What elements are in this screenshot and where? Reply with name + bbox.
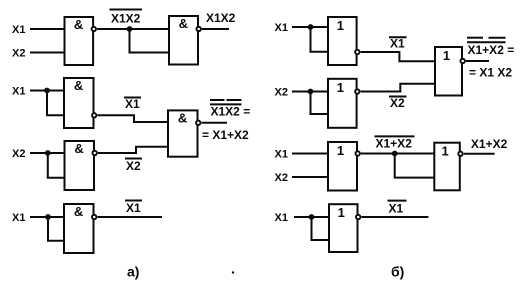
wire gate B2 output to gate B3 bottom input (361, 84, 435, 92)
node X1 input label (row 4 left) (12, 212, 25, 224)
overline short bar over X1 (210, 99, 225, 101)
node junction on X1 input (44, 88, 50, 94)
wire X1 to gate A1 (30, 28, 65, 30)
svg-text:&: & (74, 141, 83, 156)
svg-text:X2: X2 (390, 96, 405, 110)
wire gate A5 output (202, 122, 228, 124)
svg-text:&: & (179, 16, 188, 31)
svg-text:X2: X2 (275, 87, 288, 99)
svg-text:X1: X1 (275, 212, 288, 224)
overline bar (388, 200, 407, 202)
wire branch down to gate B1 second input (311, 27, 329, 52)
wire X1 to gate A6 (30, 216, 64, 218)
value label = X1 X2 (469, 66, 512, 80)
inversion bubble of gate B3 (461, 59, 465, 63)
wire gate B5 output (464, 153, 495, 155)
wire branch down to gate B6 second input (312, 217, 330, 240)
node X2 input label (right row 3) (275, 172, 288, 184)
svg-text:X1: X1 (12, 86, 25, 98)
wire X2 to gate B2 (292, 91, 328, 93)
node X2 input label (right row 2) (275, 87, 288, 99)
NOR gate B2 (328, 79, 357, 128)
svg-text:X1+X2 =: X1+X2 = (468, 43, 515, 57)
svg-text:X1: X1 (275, 149, 288, 161)
NAND gate A4 (65, 141, 95, 190)
value label overline X1 (right row 4) (389, 202, 404, 216)
svg-text:X1: X1 (126, 201, 141, 215)
svg-text:X1: X1 (125, 97, 140, 111)
overline short bar over X2 (489, 37, 506, 39)
svg-text:1: 1 (338, 205, 345, 220)
node X1 input label (right row 3) (275, 149, 288, 161)
svg-text:1: 1 (337, 80, 344, 95)
inversion bubble of gate B5 (458, 152, 462, 156)
node junction on B4 output (392, 151, 398, 157)
node junction on X1 input (45, 214, 51, 220)
value label overline X2 (right row 2) (390, 96, 405, 110)
wire X2 to gate A4 (30, 152, 65, 154)
inversion bubble of gate A3 (92, 113, 96, 117)
svg-text:&: & (178, 111, 187, 126)
svg-text:б): б) (391, 264, 404, 280)
wire branch down to gate A4 second input (48, 153, 65, 178)
overline short bar over X1 (467, 37, 483, 39)
value label double-overline X1+X2 = (468, 43, 515, 57)
overline bar (124, 97, 141, 99)
wire branch down to gate B2 second input (311, 92, 329, 115)
value label overline X1+X2 (376, 137, 413, 151)
overline long bar (210, 103, 242, 105)
wire X1 to gate A3 (30, 90, 64, 92)
svg-text:= X1 X2: = X1 X2 (469, 66, 512, 80)
inversion bubble of gate A2 (197, 27, 201, 31)
overline bar (110, 9, 143, 11)
svg-text:X2: X2 (12, 48, 25, 60)
svg-text:X1+X2: X1+X2 (376, 137, 413, 151)
wire gate B1 output to gate B3 top input (361, 52, 435, 61)
value label overline X2 (row 3) (126, 159, 141, 173)
wire X1 to gate B1 (292, 26, 328, 28)
svg-text:&: & (74, 78, 83, 93)
svg-text:&: & (74, 204, 83, 219)
wire X2 to gate B4 (292, 176, 328, 178)
inversion bubble of gate B2 (355, 89, 359, 93)
wire X1 to gate B6 (294, 216, 329, 218)
node junction on A1 output (127, 26, 133, 32)
wire gate A4 output to gate A5 bottom input (98, 147, 168, 153)
overline bar (125, 200, 142, 202)
label b) (391, 264, 404, 280)
svg-text:1: 1 (337, 18, 344, 33)
NAND gate A3 (64, 78, 94, 128)
node X1 input label (right row 1) (275, 22, 288, 34)
wire branch down from junction to gate A2 bottom input (130, 29, 170, 53)
inversion bubble of gate B6 (356, 215, 360, 219)
svg-text:1: 1 (443, 48, 450, 63)
NOR gate B4 (328, 142, 357, 191)
decorative dot (232, 271, 234, 273)
svg-text:X1: X1 (275, 22, 288, 34)
svg-text:X2: X2 (12, 148, 25, 160)
inversion bubble of gate B1 (355, 50, 359, 54)
svg-text:1: 1 (441, 144, 448, 159)
overline bar (389, 96, 407, 98)
wire branch down to gate A6 second input (48, 217, 64, 241)
label a) (127, 264, 139, 280)
value label overline X1 (row 4) (126, 201, 141, 215)
svg-text:а): а) (127, 264, 139, 280)
wire gate B6 output (362, 216, 429, 218)
svg-text:X1X2: X1X2 (111, 12, 141, 26)
wire gate B3 output (466, 60, 489, 62)
overline short bar over X2 (227, 99, 242, 101)
wire branch down to gate B5 second input (395, 154, 435, 178)
svg-text:X1: X1 (389, 202, 404, 216)
node X2 input label (row 1 left) (12, 48, 25, 60)
overline long bar (467, 41, 506, 43)
node X1 input label (right row 4) (275, 212, 288, 224)
wire branch down to gate A3 second input (47, 91, 64, 116)
svg-text:= X1+X2: = X1+X2 (202, 128, 249, 142)
node X2 input label (row 3 left) (12, 148, 25, 160)
inversion bubble of gate A6 (92, 215, 96, 219)
inversion bubble of gate B4 (356, 151, 360, 155)
value label overline X1 (right row 1) (390, 37, 405, 51)
node X1 input label (row 2 left) (12, 86, 25, 98)
NAND gate A1 (65, 17, 94, 65)
node junction on X1 input (308, 24, 314, 30)
wire gate A6 output (98, 216, 163, 218)
NOR gate B6 (329, 204, 358, 252)
wire X1 to gate B4 (292, 153, 328, 155)
value label X1+X2 output (471, 137, 508, 151)
wire gate B4 output to gate B5 top input (361, 153, 434, 155)
overline bar (375, 135, 415, 137)
overline bar (389, 36, 407, 38)
svg-text:X2: X2 (275, 172, 288, 184)
svg-text:&: & (74, 17, 83, 32)
value label = X1+X2 (202, 128, 249, 142)
svg-text:X1: X1 (12, 24, 25, 36)
svg-text:X1: X1 (390, 37, 405, 51)
inversion bubble of gate A5 (196, 121, 200, 125)
value label overline X1X2 (111, 12, 141, 26)
svg-text:X1X2 =: X1X2 = (211, 105, 251, 119)
value label double-overline X1X2 = (211, 105, 251, 119)
NOR gate B1 (328, 17, 357, 65)
NAND gate A2 (169, 16, 198, 65)
wire gate A2 output (202, 28, 229, 30)
svg-text:X1X2: X1X2 (206, 11, 236, 25)
wire gate A3 output to gate A5 top input (98, 115, 169, 122)
value label overline X1 (row 2) (125, 97, 140, 111)
svg-text:X1: X1 (12, 212, 25, 224)
NAND gate A5 (168, 110, 198, 156)
inversion bubble of gate A4 (93, 151, 97, 155)
inversion bubble of gate A1 (92, 27, 96, 31)
node junction on X1 input (309, 214, 315, 220)
NOR gate B5 (434, 143, 460, 191)
node junction on X2 input (45, 150, 51, 156)
wire gate A1 output to gate A2 top input (97, 28, 169, 30)
wire X2 to gate A1 (30, 52, 65, 54)
overline bar (125, 158, 142, 160)
node X1 input label (row 1 left) (12, 24, 25, 36)
svg-text:X1+X2: X1+X2 (471, 137, 508, 151)
node junction on X2 input (308, 89, 314, 95)
NOR gate B3 (435, 47, 462, 96)
NAND gate A6 (64, 204, 94, 253)
value label X1X2 output (206, 11, 236, 25)
svg-text:X2: X2 (126, 159, 141, 173)
svg-text:1: 1 (337, 143, 344, 158)
